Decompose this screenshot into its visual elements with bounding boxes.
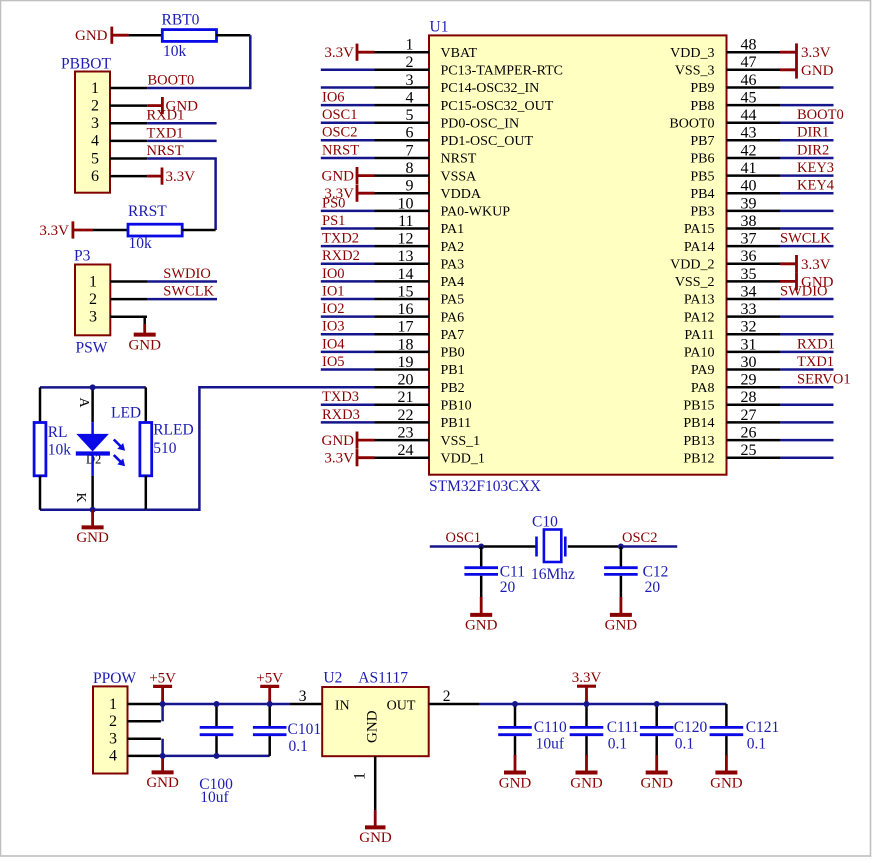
svg-text:NRST: NRST bbox=[147, 143, 184, 159]
svg-text:PS1: PS1 bbox=[322, 213, 345, 229]
svg-text:12: 12 bbox=[398, 231, 414, 248]
svg-text:PA4: PA4 bbox=[441, 275, 465, 290]
svg-text:GND: GND bbox=[364, 710, 380, 743]
svg-text:U1: U1 bbox=[430, 19, 449, 36]
svg-text:2: 2 bbox=[406, 54, 414, 71]
svg-text:5: 5 bbox=[406, 107, 414, 124]
svg-text:4: 4 bbox=[109, 748, 117, 765]
svg-text:PB14: PB14 bbox=[683, 416, 714, 431]
svg-text:48: 48 bbox=[741, 37, 757, 54]
svg-text:10k: 10k bbox=[129, 235, 153, 252]
svg-text:TXD3: TXD3 bbox=[322, 389, 359, 405]
svg-text:PB9: PB9 bbox=[690, 81, 714, 96]
svg-text:VSS_1: VSS_1 bbox=[441, 434, 481, 449]
svg-text:26: 26 bbox=[741, 425, 757, 442]
svg-text:C111: C111 bbox=[607, 719, 639, 736]
svg-text:PA14: PA14 bbox=[684, 240, 715, 255]
svg-text:SWCLK: SWCLK bbox=[163, 284, 214, 300]
svg-text:PB12: PB12 bbox=[683, 451, 714, 466]
svg-text:IO3: IO3 bbox=[322, 319, 345, 335]
svg-text:AS1117: AS1117 bbox=[358, 669, 408, 686]
svg-text:NRST: NRST bbox=[441, 152, 477, 167]
svg-text:RXD1: RXD1 bbox=[797, 336, 835, 352]
svg-text:3: 3 bbox=[299, 688, 307, 705]
svg-text:VSS_2: VSS_2 bbox=[675, 275, 715, 290]
svg-text:38: 38 bbox=[741, 213, 757, 230]
svg-text:10uf: 10uf bbox=[200, 789, 229, 806]
svg-text:2: 2 bbox=[89, 291, 97, 308]
svg-text:PC13-TAMPER-RTC: PC13-TAMPER-RTC bbox=[441, 64, 564, 79]
svg-text:DIR1: DIR1 bbox=[797, 125, 829, 141]
svg-text:VDD_3: VDD_3 bbox=[670, 46, 714, 61]
svg-text:C12: C12 bbox=[643, 563, 669, 580]
svg-text:10: 10 bbox=[398, 195, 414, 212]
svg-text:45: 45 bbox=[741, 90, 757, 107]
svg-text:2: 2 bbox=[109, 713, 117, 730]
svg-text:+5V: +5V bbox=[149, 670, 176, 686]
svg-text:OSC2: OSC2 bbox=[322, 125, 357, 141]
svg-text:21: 21 bbox=[398, 389, 414, 406]
svg-text:PB15: PB15 bbox=[683, 399, 714, 414]
svg-text:TXD1: TXD1 bbox=[797, 354, 834, 370]
svg-text:PC15-OSC32_OUT: PC15-OSC32_OUT bbox=[441, 99, 554, 114]
svg-text:C101: C101 bbox=[288, 721, 322, 738]
svg-text:10k: 10k bbox=[163, 43, 187, 60]
svg-text:PD0-OSC_IN: PD0-OSC_IN bbox=[441, 116, 520, 131]
svg-text:3: 3 bbox=[89, 309, 97, 326]
svg-text:28: 28 bbox=[741, 389, 757, 406]
svg-text:27: 27 bbox=[741, 407, 757, 424]
svg-text:11: 11 bbox=[398, 213, 413, 230]
svg-text:41: 41 bbox=[741, 160, 757, 177]
svg-text:RXD1: RXD1 bbox=[147, 108, 185, 124]
svg-text:GND: GND bbox=[75, 28, 108, 44]
svg-text:GND: GND bbox=[801, 274, 834, 290]
svg-text:0.1: 0.1 bbox=[675, 736, 694, 753]
svg-text:PB8: PB8 bbox=[690, 99, 714, 114]
svg-text:20: 20 bbox=[398, 372, 414, 389]
svg-text:PB2: PB2 bbox=[441, 381, 465, 396]
svg-text:3.3V: 3.3V bbox=[801, 45, 831, 61]
svg-text:PB0: PB0 bbox=[441, 346, 465, 361]
svg-text:10uf: 10uf bbox=[536, 736, 565, 753]
svg-text:1: 1 bbox=[89, 273, 97, 290]
svg-text:17: 17 bbox=[398, 319, 414, 336]
svg-text:PB11: PB11 bbox=[441, 416, 472, 431]
svg-text:3.3V: 3.3V bbox=[801, 257, 831, 273]
svg-text:PA10: PA10 bbox=[684, 346, 715, 361]
svg-text:VDDA: VDDA bbox=[441, 187, 482, 202]
svg-text:18: 18 bbox=[398, 336, 414, 353]
svg-text:42: 42 bbox=[741, 142, 757, 159]
svg-text:VDD_2: VDD_2 bbox=[670, 258, 714, 273]
svg-text:C10: C10 bbox=[532, 513, 558, 530]
svg-text:16Mhz: 16Mhz bbox=[531, 566, 575, 583]
svg-text:34: 34 bbox=[741, 283, 757, 300]
svg-text:BOOT0: BOOT0 bbox=[669, 116, 714, 131]
svg-text:0.1: 0.1 bbox=[608, 736, 627, 753]
svg-text:PA1: PA1 bbox=[441, 222, 465, 237]
svg-text:C110: C110 bbox=[534, 719, 567, 736]
svg-text:PB13: PB13 bbox=[683, 434, 714, 449]
svg-text:30: 30 bbox=[741, 354, 757, 371]
svg-text:14: 14 bbox=[398, 266, 414, 283]
svg-text:47: 47 bbox=[741, 54, 757, 71]
svg-text:4: 4 bbox=[91, 133, 99, 150]
svg-text:PD1-OSC_OUT: PD1-OSC_OUT bbox=[441, 134, 534, 149]
svg-text:PA7: PA7 bbox=[441, 328, 465, 343]
svg-text:BOOT0: BOOT0 bbox=[797, 107, 844, 123]
svg-text:RLED: RLED bbox=[153, 422, 193, 439]
svg-text:VSSA: VSSA bbox=[441, 169, 478, 184]
svg-text:32: 32 bbox=[741, 319, 757, 336]
svg-text:31: 31 bbox=[741, 336, 757, 353]
svg-text:GND: GND bbox=[128, 337, 161, 353]
svg-text:20: 20 bbox=[645, 579, 661, 596]
svg-text:3.3V: 3.3V bbox=[324, 45, 354, 61]
svg-text:BOOT0: BOOT0 bbox=[148, 72, 195, 88]
svg-text:GND: GND bbox=[499, 775, 532, 791]
svg-text:PA2: PA2 bbox=[441, 240, 465, 255]
svg-text:PC14-OSC32_IN: PC14-OSC32_IN bbox=[441, 81, 540, 96]
svg-text:2: 2 bbox=[443, 688, 451, 705]
svg-text:IO6: IO6 bbox=[322, 90, 345, 106]
svg-text:RBT0: RBT0 bbox=[162, 11, 200, 28]
svg-text:PA8: PA8 bbox=[691, 381, 715, 396]
svg-text:RXD2: RXD2 bbox=[322, 248, 360, 264]
svg-text:1: 1 bbox=[91, 80, 99, 97]
svg-text:LED: LED bbox=[111, 404, 141, 421]
svg-text:OSC1: OSC1 bbox=[446, 530, 481, 546]
svg-text:PBBOT: PBBOT bbox=[61, 55, 111, 72]
svg-text:GND: GND bbox=[359, 830, 392, 846]
svg-text:IO4: IO4 bbox=[322, 336, 345, 352]
svg-text:KEY4: KEY4 bbox=[797, 178, 835, 194]
svg-text:C11: C11 bbox=[500, 563, 525, 580]
svg-text:8: 8 bbox=[406, 160, 414, 177]
svg-text:6: 6 bbox=[406, 125, 414, 142]
svg-text:TXD2: TXD2 bbox=[322, 231, 359, 247]
svg-text:4: 4 bbox=[406, 90, 414, 107]
svg-text:IN: IN bbox=[335, 698, 350, 713]
svg-text:510: 510 bbox=[153, 440, 177, 457]
svg-text:OSC1: OSC1 bbox=[322, 107, 357, 123]
svg-text:25: 25 bbox=[741, 442, 757, 459]
svg-text:6: 6 bbox=[91, 168, 99, 185]
svg-text:33: 33 bbox=[741, 301, 757, 318]
svg-text:TXD1: TXD1 bbox=[147, 125, 184, 141]
svg-text:PPOW: PPOW bbox=[93, 670, 136, 687]
svg-text:5: 5 bbox=[91, 150, 99, 167]
svg-text:PB5: PB5 bbox=[690, 169, 714, 184]
svg-text:46: 46 bbox=[741, 72, 757, 89]
svg-text:KEY3: KEY3 bbox=[797, 160, 834, 176]
svg-text:STM32F103CXX: STM32F103CXX bbox=[429, 478, 541, 495]
svg-text:9: 9 bbox=[406, 178, 414, 195]
svg-text:39: 39 bbox=[741, 195, 757, 212]
svg-text:10k: 10k bbox=[48, 441, 71, 458]
svg-text:C121: C121 bbox=[746, 719, 780, 736]
svg-text:24: 24 bbox=[398, 442, 414, 459]
svg-text:PA3: PA3 bbox=[441, 258, 465, 273]
svg-text:1: 1 bbox=[406, 37, 414, 54]
svg-text:1: 1 bbox=[352, 772, 369, 780]
svg-text:VDD_1: VDD_1 bbox=[441, 451, 485, 466]
svg-text:3.3V: 3.3V bbox=[166, 169, 196, 185]
svg-text:+5V: +5V bbox=[256, 670, 283, 686]
svg-text:3: 3 bbox=[109, 731, 117, 748]
svg-text:22: 22 bbox=[398, 407, 414, 424]
svg-text:GND: GND bbox=[605, 618, 638, 634]
svg-text:35: 35 bbox=[741, 266, 757, 283]
svg-text:23: 23 bbox=[398, 425, 414, 442]
svg-text:20: 20 bbox=[500, 579, 516, 596]
svg-text:36: 36 bbox=[741, 248, 757, 265]
svg-text:PB1: PB1 bbox=[441, 363, 465, 378]
svg-text:19: 19 bbox=[398, 354, 414, 371]
svg-text:44: 44 bbox=[741, 107, 757, 124]
svg-text:GND: GND bbox=[146, 775, 179, 791]
svg-text:IO2: IO2 bbox=[322, 301, 345, 317]
svg-text:OUT: OUT bbox=[387, 698, 416, 713]
svg-text:3: 3 bbox=[406, 72, 414, 89]
svg-text:GND: GND bbox=[465, 618, 498, 634]
svg-text:PB3: PB3 bbox=[690, 205, 714, 220]
svg-text:3: 3 bbox=[91, 115, 99, 132]
svg-text:PSW: PSW bbox=[76, 339, 108, 356]
svg-text:GND: GND bbox=[322, 433, 355, 449]
svg-text:SWDIO: SWDIO bbox=[163, 266, 211, 282]
svg-text:VSS_3: VSS_3 bbox=[675, 64, 715, 79]
svg-text:3.3V: 3.3V bbox=[39, 223, 69, 239]
svg-text:SWCLK: SWCLK bbox=[780, 231, 831, 247]
svg-text:OSC2: OSC2 bbox=[622, 530, 657, 546]
svg-text:0.1: 0.1 bbox=[747, 736, 766, 753]
svg-text:GND: GND bbox=[570, 775, 603, 791]
svg-text:GND: GND bbox=[801, 63, 834, 79]
svg-text:PS0: PS0 bbox=[322, 195, 345, 211]
svg-text:GND: GND bbox=[322, 169, 355, 185]
svg-text:PA5: PA5 bbox=[441, 293, 465, 308]
svg-text:RL: RL bbox=[48, 424, 68, 441]
svg-text:PB7: PB7 bbox=[690, 134, 714, 149]
svg-text:GND: GND bbox=[76, 530, 109, 546]
svg-text:PA9: PA9 bbox=[691, 363, 715, 378]
svg-text:IO5: IO5 bbox=[322, 354, 345, 370]
svg-text:40: 40 bbox=[741, 178, 757, 195]
svg-text:43: 43 bbox=[741, 125, 757, 142]
svg-text:2: 2 bbox=[91, 97, 99, 114]
svg-text:29: 29 bbox=[741, 372, 757, 389]
svg-text:GND: GND bbox=[640, 775, 673, 791]
svg-text:37: 37 bbox=[741, 231, 757, 248]
svg-text:PB4: PB4 bbox=[690, 187, 714, 202]
svg-text:1: 1 bbox=[109, 696, 117, 713]
svg-text:PA11: PA11 bbox=[684, 328, 714, 343]
svg-text:RRST: RRST bbox=[128, 203, 167, 220]
svg-text:PA0-WKUP: PA0-WKUP bbox=[441, 205, 511, 220]
svg-text:0.1: 0.1 bbox=[289, 738, 308, 755]
svg-text:DIR2: DIR2 bbox=[797, 142, 829, 158]
svg-text:PB10: PB10 bbox=[441, 399, 472, 414]
svg-text:U2: U2 bbox=[323, 669, 342, 686]
svg-text:P3: P3 bbox=[74, 248, 91, 265]
svg-text:16: 16 bbox=[398, 301, 414, 318]
svg-text:A: A bbox=[76, 397, 91, 408]
svg-text:13: 13 bbox=[398, 248, 414, 265]
svg-text:3.3V: 3.3V bbox=[324, 451, 354, 467]
svg-text:VBAT: VBAT bbox=[441, 46, 478, 61]
svg-text:RXD3: RXD3 bbox=[322, 407, 360, 423]
svg-text:PA12: PA12 bbox=[684, 310, 715, 325]
svg-text:K: K bbox=[73, 492, 88, 502]
svg-text:PA13: PA13 bbox=[684, 293, 715, 308]
svg-text:PA15: PA15 bbox=[684, 222, 715, 237]
svg-text:7: 7 bbox=[406, 142, 414, 159]
svg-text:GND: GND bbox=[710, 775, 743, 791]
svg-text:NRST: NRST bbox=[322, 142, 359, 158]
svg-text:IO1: IO1 bbox=[322, 283, 345, 299]
svg-text:SERVO1: SERVO1 bbox=[797, 372, 851, 388]
svg-text:3.3V: 3.3V bbox=[572, 670, 602, 686]
svg-text:PA6: PA6 bbox=[441, 310, 465, 325]
svg-text:IO0: IO0 bbox=[322, 266, 345, 282]
svg-text:PB6: PB6 bbox=[690, 152, 714, 167]
svg-text:15: 15 bbox=[398, 283, 414, 300]
svg-text:C120: C120 bbox=[674, 719, 708, 736]
